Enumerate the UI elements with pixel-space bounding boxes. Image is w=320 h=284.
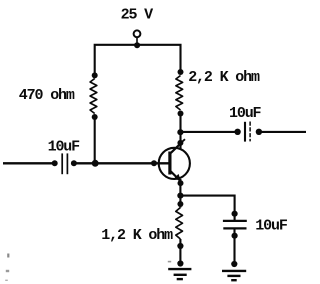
scan speck near ground bbox=[168, 261, 171, 263]
wire C3 to ground bbox=[233, 228, 235, 266]
node C3 bottom lead bbox=[232, 233, 238, 239]
capacitor C2 10uF bbox=[245, 122, 250, 142]
node C2 left bbox=[234, 129, 240, 135]
svg-text:470 ohm: 470 ohm bbox=[19, 87, 75, 104]
node base bbox=[151, 160, 157, 166]
svg-text:10uF: 10uF bbox=[255, 218, 288, 235]
node R2 top bbox=[178, 69, 184, 75]
wire top bus bbox=[95, 45, 181, 76]
node bias junction bbox=[92, 160, 99, 167]
node collector bbox=[177, 140, 183, 146]
wire output to C2 bbox=[180, 131, 238, 133]
wire C2 to output edge bbox=[259, 131, 306, 133]
resistor R2 2,2 K ohm bbox=[176, 76, 183, 111]
svg-text:2,2 K ohm: 2,2 K ohm bbox=[188, 69, 260, 86]
ground right bbox=[222, 271, 246, 280]
wire C1 to base bbox=[74, 162, 169, 164]
node C3 top lead bbox=[232, 211, 238, 217]
capacitor C1 10uF bbox=[62, 153, 67, 174]
svg-text:10uF: 10uF bbox=[229, 105, 262, 122]
wire R1 to input line bbox=[94, 117, 96, 163]
wire R2 to collector bbox=[179, 114, 181, 150]
wire input from left edge bbox=[3, 162, 55, 164]
capacitor C3 10uF bbox=[223, 221, 247, 229]
node R2 bottom bbox=[178, 111, 184, 117]
transistor Q1 bbox=[159, 139, 190, 180]
svg-text:25 V: 25 V bbox=[121, 7, 154, 24]
node R3 bottom bbox=[177, 243, 183, 249]
supply terminal bbox=[134, 30, 141, 37]
node above right ground bbox=[231, 261, 237, 267]
node R3 top bbox=[177, 201, 183, 207]
wire emitter leg bbox=[179, 179, 181, 208]
node C1 left bbox=[52, 160, 58, 166]
node supply junction bbox=[134, 42, 140, 48]
svg-text:10uF: 10uF bbox=[48, 138, 81, 155]
node C2 right bbox=[256, 129, 262, 135]
node emitter/bypass junction bbox=[177, 193, 183, 199]
ground left bbox=[168, 269, 191, 279]
resistor R3 1,2 K ohm bbox=[176, 208, 183, 240]
node R1 top bbox=[92, 72, 98, 78]
wire bypass branch bbox=[180, 196, 234, 221]
wire R3 to ground bbox=[179, 239, 181, 266]
scan speck left edge 1 bbox=[7, 254, 9, 258]
node collector/output junction bbox=[177, 129, 183, 135]
scan speck left edge 2 bbox=[6, 270, 9, 272]
node C1 right bbox=[71, 160, 77, 166]
resistor R1 470 ohm bbox=[90, 79, 97, 114]
svg-text:1,2 K ohm: 1,2 K ohm bbox=[101, 227, 173, 244]
node above left ground bbox=[177, 260, 183, 266]
node emitter bbox=[178, 180, 184, 186]
scan speck left edge 3 bbox=[5, 280, 8, 281]
node R1 bottom bbox=[92, 114, 98, 120]
wire terminal to bus bbox=[136, 37, 138, 46]
